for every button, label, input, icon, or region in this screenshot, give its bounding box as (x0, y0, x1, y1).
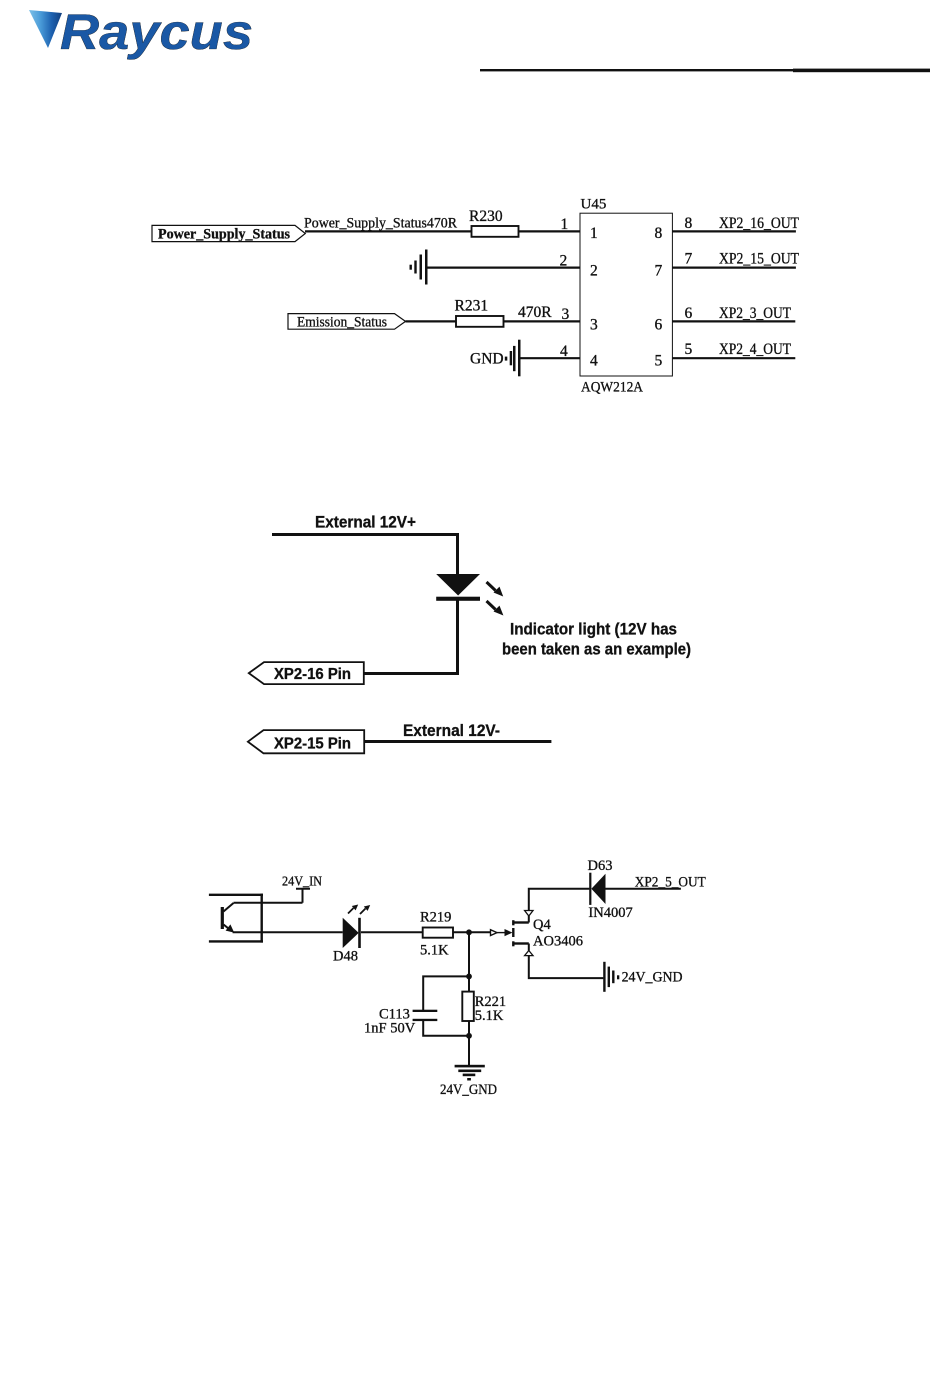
svg-text:4: 4 (590, 353, 598, 370)
svg-text:5: 5 (655, 353, 663, 370)
svg-text:XP2-15 Pin: XP2-15 Pin (274, 736, 351, 753)
drain port triangle (525, 911, 533, 917)
ground symbol pin4 GND (505, 340, 521, 377)
Raycus logo mark (29, 10, 62, 48)
LED light arrow 2 (487, 601, 496, 610)
wire pin4 net (520, 357, 581, 359)
svg-text:D63: D63 (588, 858, 613, 874)
svg-text:U45: U45 (581, 197, 607, 213)
wire junction down (468, 932, 470, 991)
power stub 24V_IN (296, 889, 310, 903)
LED cathode bar (436, 597, 480, 601)
connector shell right (261, 894, 263, 943)
svg-text:7: 7 (655, 263, 663, 280)
svg-text:External 12V+: External 12V+ (315, 513, 416, 532)
wire R219 junction to gate (469, 931, 491, 933)
LED D48 triangle (343, 918, 359, 948)
wire pin3 net (406, 320, 581, 322)
wire collector to 24V_IN (234, 902, 303, 904)
svg-text:1nF 50V: 1nF 50V (364, 1021, 416, 1037)
svg-text:2: 2 (590, 263, 598, 280)
svg-text:3: 3 (590, 316, 598, 333)
svg-text:XP2-16 Pin: XP2-16 Pin (274, 666, 351, 683)
ground symbol 24V_GND bottom (455, 1065, 485, 1081)
wire D63 to XP2_5_OUT (606, 888, 681, 890)
junction node gate (466, 929, 472, 935)
resistor R230 (472, 226, 519, 237)
svg-text:4: 4 (560, 343, 568, 360)
wire pin7 XP2_15_OUT (672, 267, 796, 269)
wire source down (529, 944, 604, 979)
resistor R219 (423, 928, 453, 938)
LED light arrow 1 (487, 582, 504, 616)
svg-text:24V_IN: 24V_IN (282, 874, 322, 889)
LED D (indicator) triangle (436, 574, 480, 596)
svg-text:IN4007: IN4007 (588, 905, 632, 921)
wire C113 bottom (423, 1021, 469, 1036)
svg-text:470R: 470R (518, 304, 552, 321)
svg-text:1: 1 (561, 216, 569, 233)
svg-text:5.1K: 5.1K (475, 1008, 504, 1024)
wire drain up (529, 889, 590, 923)
svg-text:8: 8 (655, 225, 663, 242)
svg-text:Power_Supply_Status: Power_Supply_Status (158, 227, 290, 243)
resistor R221 (462, 992, 474, 1021)
svg-text:XP2_5_OUT: XP2_5_OUT (635, 875, 706, 891)
wire External 12V+ horizontal (272, 533, 459, 536)
capacitor C113 (413, 1010, 438, 1021)
svg-text:Power_Supply_Status470R: Power_Supply_Status470R (304, 216, 457, 232)
wire R221 bottom to ground (468, 1021, 470, 1066)
junction node RC top (466, 974, 472, 980)
svg-text:R230: R230 (469, 208, 503, 225)
svg-text:been taken as an example): been taken as an example) (502, 639, 691, 658)
svg-text:XP2_3_OUT: XP2_3_OUT (719, 305, 791, 322)
port flag XP2-16 Pin (249, 662, 364, 684)
svg-text:External 12V-: External 12V- (403, 721, 500, 740)
svg-text:AO3406: AO3406 (533, 934, 583, 950)
wire to XP2-16 flag (364, 672, 460, 675)
header rule (480, 69, 930, 71)
MOSFET Q4 gate arrows (491, 930, 498, 936)
svg-text:R231: R231 (455, 298, 489, 315)
svg-text:D48: D48 (333, 949, 358, 965)
svg-text:AQW212A: AQW212A (581, 380, 643, 396)
ground symbol 24V_GND right (603, 962, 619, 992)
wire pin6 XP2_3_OUT (672, 320, 795, 322)
svg-text:5: 5 (685, 341, 693, 358)
port flag Emission_Status (288, 314, 406, 330)
IC U45 AQW212A body (580, 213, 672, 376)
svg-text:7: 7 (685, 250, 693, 267)
svg-text:6: 6 (685, 305, 693, 322)
svg-text:6: 6 (655, 316, 663, 333)
LED D48 light arrows (348, 905, 370, 915)
wire External 12V- (364, 740, 551, 743)
svg-text:Raycus: Raycus (60, 4, 253, 60)
svg-text:GND: GND (470, 351, 504, 368)
port flag Power_Supply_Status (152, 225, 305, 241)
wire pin1 net (305, 230, 580, 232)
svg-text:Q4: Q4 (533, 917, 551, 933)
phototransistor Q (opto input) (221, 903, 235, 933)
wire anode vertical (456, 533, 459, 574)
svg-text:XP2_16_OUT: XP2_16_OUT (719, 215, 799, 232)
junction node RC bottom (466, 1033, 472, 1039)
svg-text:3: 3 (562, 306, 570, 323)
svg-text:8: 8 (685, 215, 693, 232)
svg-text:Indicator light (12V has: Indicator light (12V has (510, 620, 677, 639)
port flag XP2-15 Pin (248, 730, 364, 753)
wire junction to C113 branch (423, 976, 469, 1010)
wire pin2 net (427, 267, 580, 269)
LED D48 cathode bar (358, 918, 361, 948)
connector shell top (209, 894, 263, 896)
connector shell bottom (209, 940, 263, 942)
wire D48 to R219 (361, 931, 471, 933)
wire pin5 XP2_4_OUT (672, 357, 795, 359)
wire pin8 XP2_16_OUT (672, 230, 796, 232)
svg-text:R219: R219 (420, 910, 451, 926)
svg-text:Emission_Status: Emission_Status (297, 314, 387, 330)
svg-text:XP2_4_OUT: XP2_4_OUT (719, 341, 791, 358)
svg-text:XP2_15_OUT: XP2_15_OUT (719, 250, 799, 267)
ground symbol pin2 (410, 250, 428, 285)
svg-text:24V_GND: 24V_GND (440, 1082, 497, 1098)
source port triangle (525, 951, 533, 956)
diode D63 cathode bar (589, 873, 591, 905)
diode D63 triangle (591, 874, 605, 904)
svg-text:5.1K: 5.1K (420, 943, 449, 959)
resistor R231 (456, 316, 504, 327)
svg-text:1: 1 (590, 225, 598, 242)
wire emitter to D48 (233, 931, 343, 933)
wire cathode vertical (456, 601, 459, 676)
svg-text:24V_GND: 24V_GND (622, 970, 683, 986)
svg-text:2: 2 (560, 253, 568, 270)
MOSFET Q4 body (513, 920, 529, 946)
